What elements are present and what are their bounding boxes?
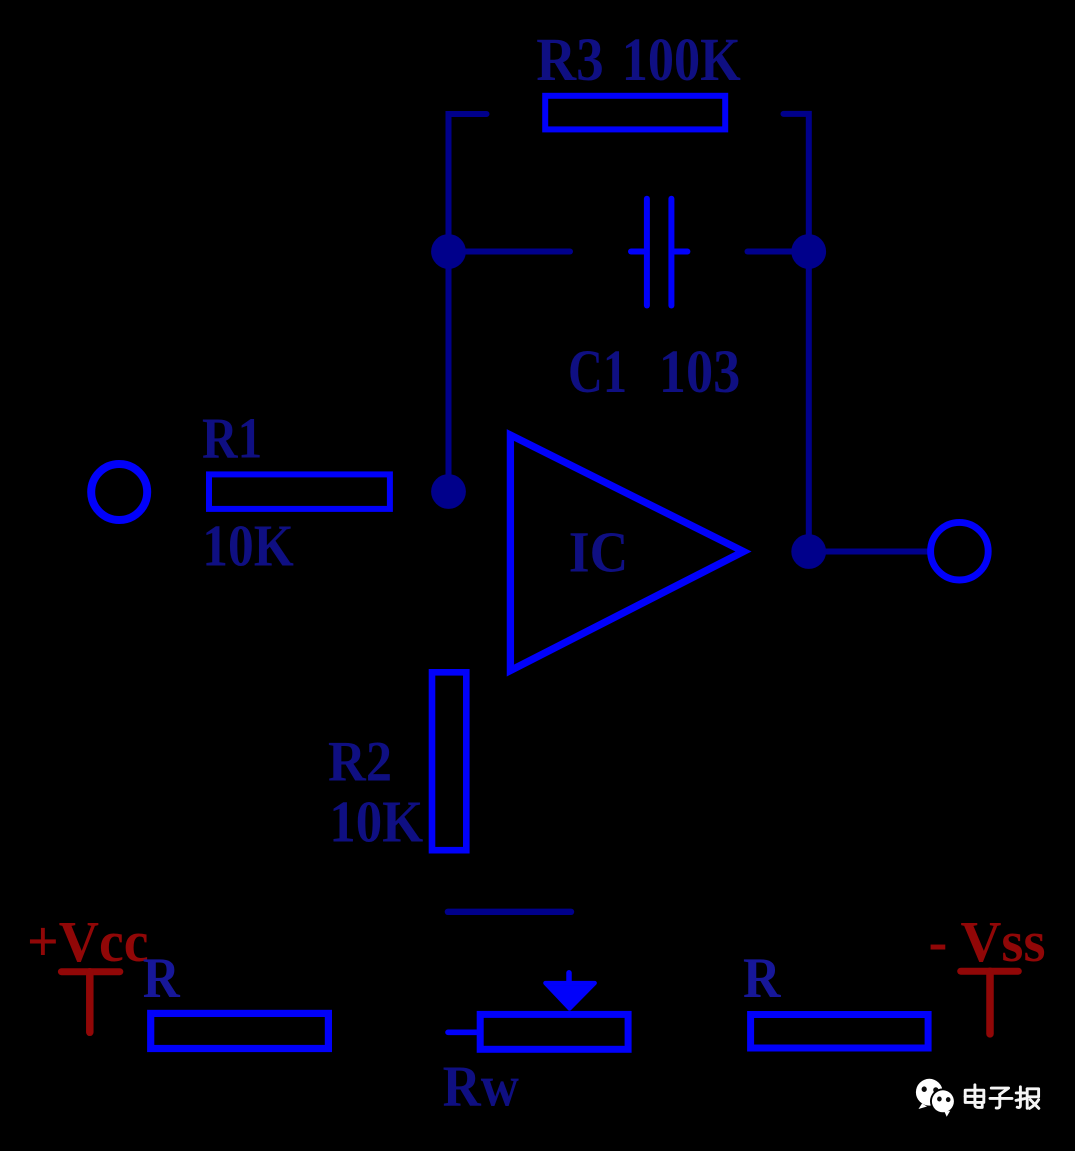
capacitor C1 bbox=[631, 199, 687, 306]
potentiometer Rw wiper stub bbox=[448, 1030, 478, 1036]
wire capacitor right bbox=[748, 249, 809, 255]
svg-text:R3: R3 bbox=[536, 27, 604, 94]
wire stub below R2 bbox=[448, 909, 571, 915]
terminal input circle bbox=[91, 464, 147, 520]
resistor R3 bbox=[545, 96, 725, 130]
resistor R1 bbox=[209, 474, 390, 509]
svg-text:100K: 100K bbox=[622, 27, 741, 94]
wire capacitor left bbox=[449, 249, 571, 255]
label R3 100K bbox=[536, 27, 741, 94]
svg-text:Rw: Rw bbox=[443, 1053, 519, 1118]
terminal output circle bbox=[931, 522, 989, 580]
node junction top-right bbox=[791, 234, 826, 269]
op-amp IC bbox=[510, 435, 743, 671]
node junction inverting input bbox=[431, 474, 466, 509]
node junction top-left bbox=[431, 234, 466, 269]
resistor R2 bbox=[432, 672, 466, 850]
power +Vcc rail symbol bbox=[61, 972, 119, 1033]
svg-text:R2: R2 bbox=[328, 730, 392, 793]
wire top-left corner bbox=[449, 114, 487, 492]
svg-text:C1: C1 bbox=[568, 339, 627, 406]
svg-text:R: R bbox=[743, 947, 781, 1010]
potentiometer Rw arrow stem bbox=[566, 973, 572, 985]
node junction output bbox=[791, 534, 826, 569]
wire output bbox=[809, 549, 930, 555]
resistor R (left) bbox=[151, 1013, 329, 1048]
resistor R (right) bbox=[751, 1015, 929, 1049]
wire top-right corner bbox=[784, 114, 809, 552]
svg-text:- Vss: - Vss bbox=[929, 909, 1046, 974]
potentiometer Rw body bbox=[480, 1014, 628, 1049]
svg-text:+Vcc: +Vcc bbox=[27, 909, 149, 974]
power -Vss rail symbol bbox=[961, 971, 1019, 1034]
svg-text:IC: IC bbox=[569, 519, 629, 584]
svg-text:10K: 10K bbox=[329, 788, 423, 854]
svg-text:10K: 10K bbox=[202, 512, 293, 578]
svg-text:R: R bbox=[143, 947, 181, 1010]
potentiometer Rw arrow head bbox=[545, 983, 595, 1009]
svg-text:103: 103 bbox=[659, 339, 741, 406]
svg-text:R1: R1 bbox=[202, 406, 262, 471]
logo WeChat bbox=[916, 1079, 956, 1117]
label C1 103 bbox=[568, 339, 740, 406]
label 电子报 bbox=[965, 1085, 1039, 1109]
